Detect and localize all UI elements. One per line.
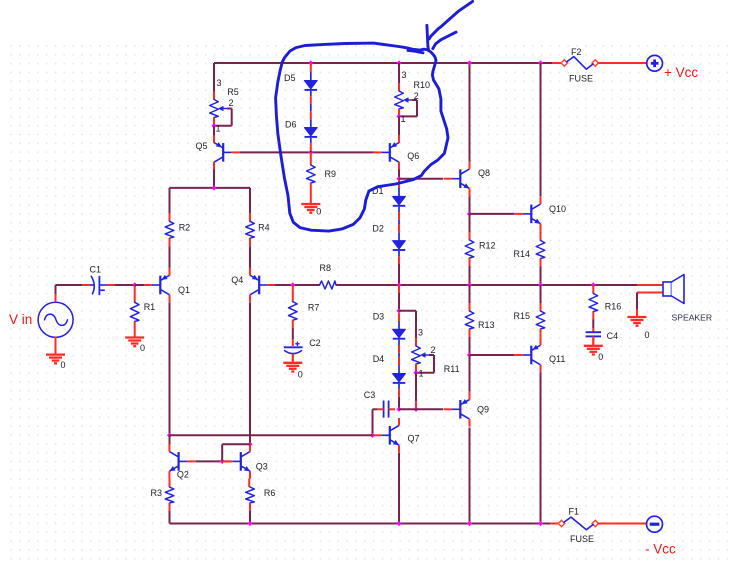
svg-text:Q10: Q10 — [549, 204, 566, 214]
svg-text:2: 2 — [431, 345, 436, 355]
svg-text:R4: R4 — [258, 223, 270, 233]
svg-text:C1: C1 — [90, 264, 102, 274]
svg-text:0: 0 — [298, 370, 303, 380]
svg-text:R12: R12 — [479, 241, 496, 251]
svg-text:Q6: Q6 — [407, 151, 419, 161]
svg-text:R5: R5 — [227, 87, 239, 97]
svg-text:R13: R13 — [478, 320, 495, 330]
svg-text:R8: R8 — [320, 263, 332, 273]
svg-text:Q11: Q11 — [549, 354, 565, 364]
svg-text:Q7: Q7 — [408, 434, 420, 444]
svg-text:0: 0 — [61, 360, 66, 370]
svg-text:0: 0 — [645, 330, 650, 340]
svg-text:Q1: Q1 — [178, 285, 190, 295]
svg-text:R11: R11 — [444, 364, 460, 374]
svg-text:3: 3 — [217, 78, 222, 88]
svg-text:3: 3 — [418, 327, 423, 337]
svg-text:R9: R9 — [325, 169, 337, 179]
svg-text:R10: R10 — [414, 80, 431, 90]
svg-text:C4: C4 — [607, 331, 619, 341]
svg-text:D5: D5 — [284, 73, 296, 83]
svg-text:R15: R15 — [514, 311, 531, 321]
svg-text:- Vcc: - Vcc — [645, 542, 676, 557]
svg-text:Q3: Q3 — [256, 462, 268, 472]
svg-text:D6: D6 — [285, 120, 297, 130]
svg-text:Q5: Q5 — [196, 141, 208, 151]
svg-text:V in: V in — [9, 312, 32, 327]
svg-text:FUSE: FUSE — [569, 74, 593, 84]
svg-text:D4: D4 — [373, 354, 385, 364]
svg-text:0: 0 — [140, 343, 145, 353]
svg-text:R6: R6 — [264, 488, 276, 498]
svg-text:+ Vcc: + Vcc — [664, 65, 698, 80]
svg-text:FUSE: FUSE — [570, 534, 594, 544]
svg-text:3: 3 — [402, 70, 407, 80]
svg-text:Q2: Q2 — [177, 470, 189, 480]
svg-text:0: 0 — [598, 352, 603, 362]
svg-text:R7: R7 — [308, 303, 320, 313]
svg-text:C3: C3 — [364, 390, 376, 400]
svg-text:D3: D3 — [373, 311, 385, 321]
svg-text:1: 1 — [401, 114, 406, 124]
svg-text:F2: F2 — [571, 47, 582, 57]
svg-text:Q9: Q9 — [477, 405, 489, 415]
svg-text:Q4: Q4 — [231, 275, 243, 285]
svg-text:R14: R14 — [514, 249, 531, 259]
svg-text:1: 1 — [216, 124, 221, 134]
svg-text:Q8: Q8 — [478, 168, 490, 178]
svg-text:R1: R1 — [144, 302, 156, 312]
svg-text:2: 2 — [229, 98, 234, 108]
svg-text:R3: R3 — [151, 488, 163, 498]
svg-text:C2: C2 — [309, 338, 321, 348]
svg-text:F1: F1 — [569, 507, 580, 517]
svg-text:1: 1 — [419, 369, 424, 379]
svg-text:SPEAKER: SPEAKER — [672, 313, 713, 323]
svg-text:R2: R2 — [179, 223, 191, 233]
svg-text:2: 2 — [414, 91, 419, 101]
svg-text:R16: R16 — [605, 302, 622, 312]
svg-text:0: 0 — [316, 207, 321, 217]
svg-text:D2: D2 — [372, 224, 384, 234]
